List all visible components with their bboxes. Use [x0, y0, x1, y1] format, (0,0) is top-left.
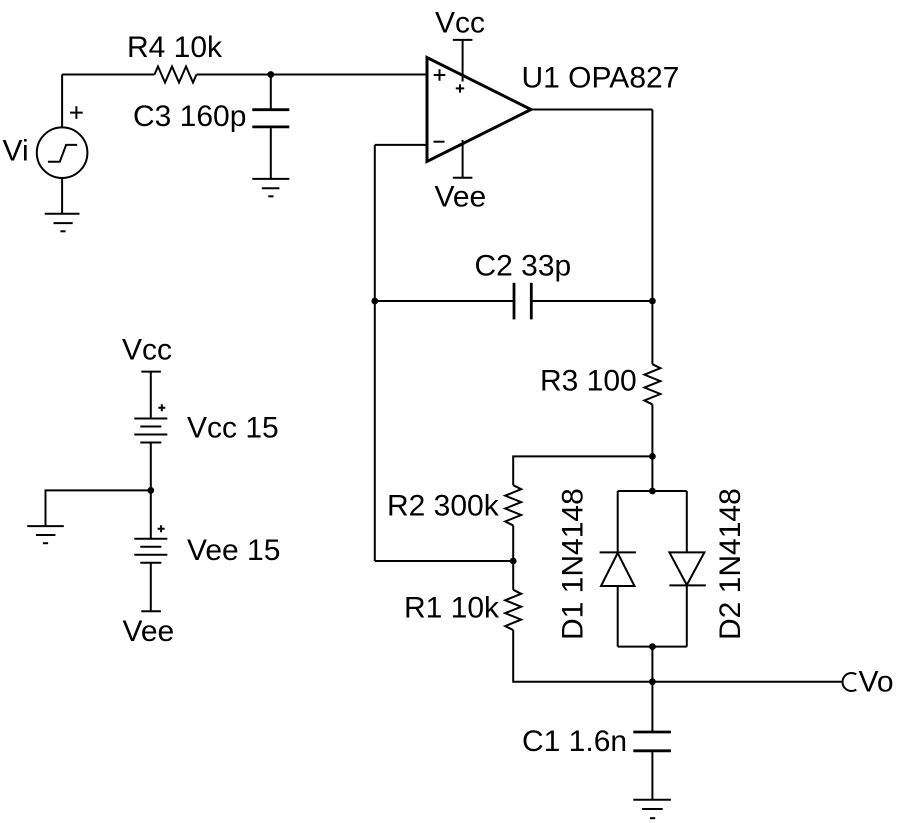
wire top horizontal to R4 — [62, 74, 154, 76]
battery Vcc plus mark — [158, 404, 165, 411]
wire column to R3 — [651, 301, 653, 364]
ground under C1 — [633, 800, 671, 819]
node C junction dot — [510, 558, 517, 565]
wire C2 left — [375, 300, 514, 302]
wire right column down to C2 node — [651, 110, 653, 302]
wire node A to op-amp + input — [271, 74, 427, 76]
op-amp - input mark — [434, 141, 445, 143]
resistor R4 — [155, 67, 197, 83]
svg-text:D2 1N4148: D2 1N4148 — [714, 488, 747, 640]
svg-text:R2 300k: R2 300k — [387, 489, 500, 522]
wire node B left to R2 top corner — [513, 456, 652, 485]
Vee rail terminal — [141, 610, 161, 612]
svg-text:C2 33p: C2 33p — [475, 250, 572, 283]
wire R2 bottom to node C — [512, 525, 514, 561]
node diode bottom junction dot — [649, 643, 656, 650]
op-amp Vee pin — [453, 140, 473, 178]
svg-text:D1 1N4148: D1 1N4148 — [557, 488, 590, 640]
svg-text:Vi: Vi — [3, 135, 29, 168]
svg-text:Vcc 15: Vcc 15 — [187, 412, 279, 445]
wire node C to R1 — [512, 561, 514, 590]
svg-text:Vee: Vee — [123, 615, 175, 648]
svg-text:R3 100: R3 100 — [540, 365, 637, 398]
node B junction dot — [649, 453, 656, 460]
op-amp Vcc pin — [453, 40, 473, 82]
svg-text:Vo: Vo — [859, 666, 894, 699]
node P junction dot — [147, 487, 154, 494]
op-amp power + mark — [456, 84, 464, 92]
battery Vee plus mark — [158, 525, 165, 532]
node C2-right column junction dot — [649, 298, 656, 305]
wire battery Vee to Vee terminal — [150, 563, 152, 612]
Vcc rail terminal — [141, 372, 161, 419]
resistor R3 — [644, 364, 660, 404]
wire R1 bottom to output row — [513, 630, 652, 682]
wire diode bottom to output row — [651, 647, 653, 682]
svg-text:Vcc: Vcc — [435, 7, 485, 40]
wire node P to ground branch — [46, 490, 151, 526]
capacitor C1 — [633, 682, 671, 800]
battery Vcc 15 — [134, 419, 167, 443]
wire op-amp output to right column — [531, 109, 652, 111]
wire diode bottom rail — [618, 646, 687, 648]
wire feedback column to node C — [375, 560, 513, 562]
wire - input to feedback column — [375, 144, 427, 146]
node feedback-C2 junction dot — [371, 298, 378, 305]
port Vo — [842, 673, 856, 691]
ground under C3 — [252, 179, 289, 196]
svg-text:Vee 15: Vee 15 — [187, 534, 280, 567]
wire node P to battery Vee — [150, 490, 152, 538]
battery Vee 15 — [134, 539, 167, 563]
diode D2 — [669, 491, 705, 647]
wire R4 to node A — [197, 74, 271, 76]
wire C2 right — [531, 300, 652, 302]
svg-text:Vee: Vee — [435, 181, 487, 214]
node output junction dot — [649, 678, 656, 685]
svg-text:R4 10k: R4 10k — [127, 31, 223, 64]
svg-text:U1 OPA827: U1 OPA827 — [522, 62, 680, 95]
wire feedback column vertical — [374, 145, 376, 561]
ground under Vi — [45, 178, 80, 231]
capacitor C3 — [252, 75, 289, 179]
svg-text:C3 160p: C3 160p — [133, 100, 246, 133]
capacitor C2 — [514, 283, 531, 320]
wire node B down to diode top rail — [651, 456, 653, 491]
wire R3 to node B — [651, 404, 653, 456]
resistor R1 — [505, 590, 521, 630]
op-amp + input mark — [434, 69, 446, 81]
wire battery Vcc to node P — [150, 443, 152, 491]
svg-text:R1 10k: R1 10k — [404, 592, 500, 625]
ground power — [27, 526, 64, 543]
node diode top junction dot — [649, 488, 656, 495]
node A junction dot — [267, 71, 274, 78]
svg-text:Vcc: Vcc — [122, 334, 172, 367]
wire diode top rail — [618, 490, 687, 492]
voltage source Vi — [37, 127, 88, 178]
resistor R2 — [505, 485, 521, 525]
svg-text:C1 1.6n: C1 1.6n — [522, 725, 627, 758]
op-amp U1 triangle — [427, 58, 531, 162]
diode D1 — [600, 491, 636, 647]
wire output row to Vo port — [652, 681, 842, 683]
wire Vi top to corner — [61, 75, 63, 128]
plus sign of Vi — [70, 106, 83, 119]
